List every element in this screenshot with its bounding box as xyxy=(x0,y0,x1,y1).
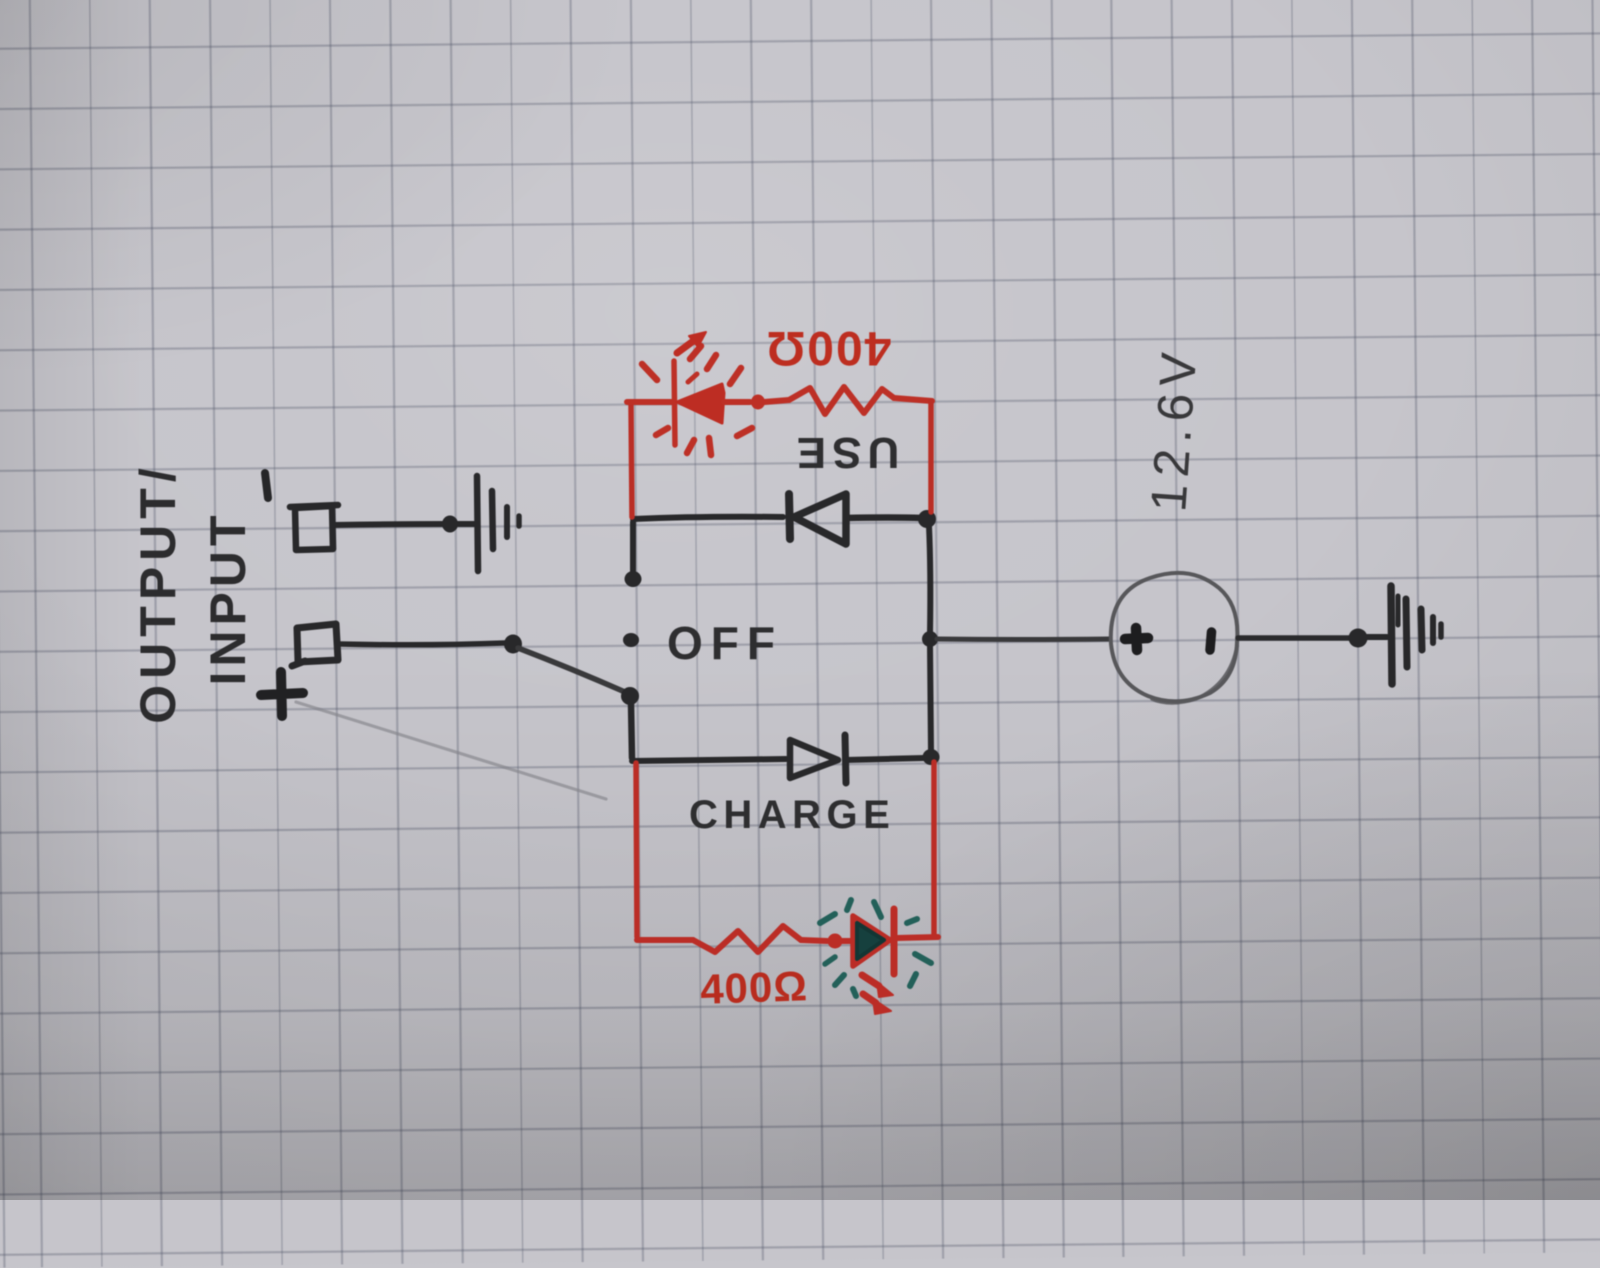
LED LED1 cathode bar (red) xyxy=(674,361,675,445)
svg-text:INPUT: INPUT xyxy=(200,511,256,686)
wire red node to LED2 xyxy=(842,938,853,944)
LED LED1 glow dashes xyxy=(642,346,752,455)
wire node to ground bars xyxy=(1365,634,1387,640)
wire node to resistor (red) xyxy=(764,400,789,402)
battery BT1 circle (pencil) xyxy=(1111,573,1238,701)
junction node at right ground xyxy=(1349,629,1368,648)
resistor R1 400ohm (red zigzag) xyxy=(789,387,894,414)
svg-text:OFF: OFF xyxy=(667,617,783,669)
wire right rail lower (black) xyxy=(930,645,931,752)
connector terminal J1 (negative, top square) xyxy=(290,505,338,550)
wire resistor to red node xyxy=(801,940,827,941)
svg-text:12.6V: 12.6V xyxy=(1140,344,1207,513)
switch SW1 pivot node xyxy=(504,635,522,654)
wire LED to node (red) xyxy=(724,399,750,405)
svg-text:USE: USE xyxy=(791,428,899,477)
wire top branch left xyxy=(633,517,783,519)
connector terminal J2 (positive, bottom square) xyxy=(292,624,338,666)
wire USE contact stub xyxy=(630,522,636,572)
LED LED1 emission arrow xyxy=(677,342,692,353)
junction node bottom right xyxy=(923,749,940,765)
faint pencil stroke xyxy=(296,702,606,799)
switch SW1 wiper arm xyxy=(518,648,625,692)
diode D1 triangle xyxy=(794,494,846,544)
wire J2 to switch pivot xyxy=(339,643,505,645)
diode D2 (CHARGE) triangle xyxy=(790,740,838,778)
LED LED1 triangle (red, filled) xyxy=(677,384,724,423)
wire J1 to ground xyxy=(334,524,452,525)
wire node to ground bars xyxy=(450,521,474,527)
switch contact USE node xyxy=(625,571,642,587)
svg-text:400Ω: 400Ω xyxy=(699,962,808,1013)
plus polarity mark xyxy=(261,672,303,716)
LED LED2 emission arrow 1 xyxy=(862,975,879,986)
svg-text:CHARGE: CHARGE xyxy=(689,793,895,837)
LED LED2 triangle outline (red) xyxy=(853,916,890,966)
LED LED2 teal glow dashes xyxy=(820,900,931,996)
diode D2 cathode bar xyxy=(845,735,846,783)
wire resistor to corner (red) xyxy=(894,398,932,401)
wire bottom branch right xyxy=(846,758,924,760)
junction node at top ground xyxy=(442,516,458,533)
wire node to battery xyxy=(937,637,1110,643)
diode D1 (USE) cathode bar xyxy=(789,494,790,539)
LED LED2 cathode bar (red) xyxy=(891,909,898,974)
ground symbol GND2 xyxy=(1391,586,1392,684)
ground symbol GND1 xyxy=(477,476,478,571)
red loop top: left vertical wire xyxy=(631,404,632,517)
junction node right mid xyxy=(922,631,938,647)
LED LED2 emission arrow 2 xyxy=(863,994,876,1003)
LED LED2 teal fill xyxy=(857,923,884,959)
red loop bottom: corner to resistor xyxy=(637,937,693,943)
svg-text:400Ω: 400Ω xyxy=(765,321,892,374)
red loop top: wire to LED xyxy=(627,399,672,405)
red node dot bottom xyxy=(828,934,843,949)
switch contact CHARGE node xyxy=(621,687,639,705)
red node dot xyxy=(751,395,765,410)
wire LED2 to right rail (red) xyxy=(897,937,938,938)
wire right rail upper (black) xyxy=(929,526,930,634)
red loop bottom: right vertical wire xyxy=(931,762,937,937)
svg-text:OUTPUT/: OUTPUT/ xyxy=(130,462,186,723)
red loop top: right vertical wire xyxy=(928,401,934,512)
battery minus xyxy=(1210,632,1212,650)
wire battery to ground xyxy=(1238,635,1352,641)
resistor R2 400ohm (red zigzag) xyxy=(693,926,801,952)
battery plus xyxy=(1125,628,1148,650)
wire top branch right xyxy=(846,514,922,521)
minus polarity mark xyxy=(265,473,268,498)
switch contact OFF node xyxy=(623,633,639,647)
wire bottom branch left xyxy=(632,759,786,761)
wire CHARGE contact stub xyxy=(631,703,632,758)
red loop bottom: left vertical wire xyxy=(636,763,637,937)
junction node top right xyxy=(918,510,936,528)
